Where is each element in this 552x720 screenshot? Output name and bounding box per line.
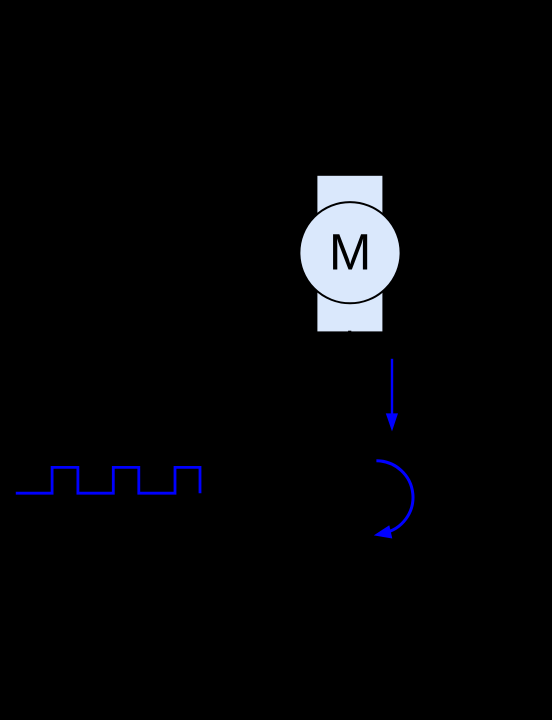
wire stub at motor bottom (348, 331, 351, 334)
rotation direction arc arrow (376, 461, 413, 533)
svg-text:M: M (329, 224, 371, 281)
blue arrow: arrowhead (386, 413, 398, 431)
motor M1 rotor circle (299, 202, 400, 303)
PWM square wave signal (16, 467, 200, 493)
blue arrow: shaft from motor down (391, 359, 393, 414)
rotation arc arrowhead (374, 525, 393, 538)
motor M1 body (brush block) (317, 176, 382, 332)
